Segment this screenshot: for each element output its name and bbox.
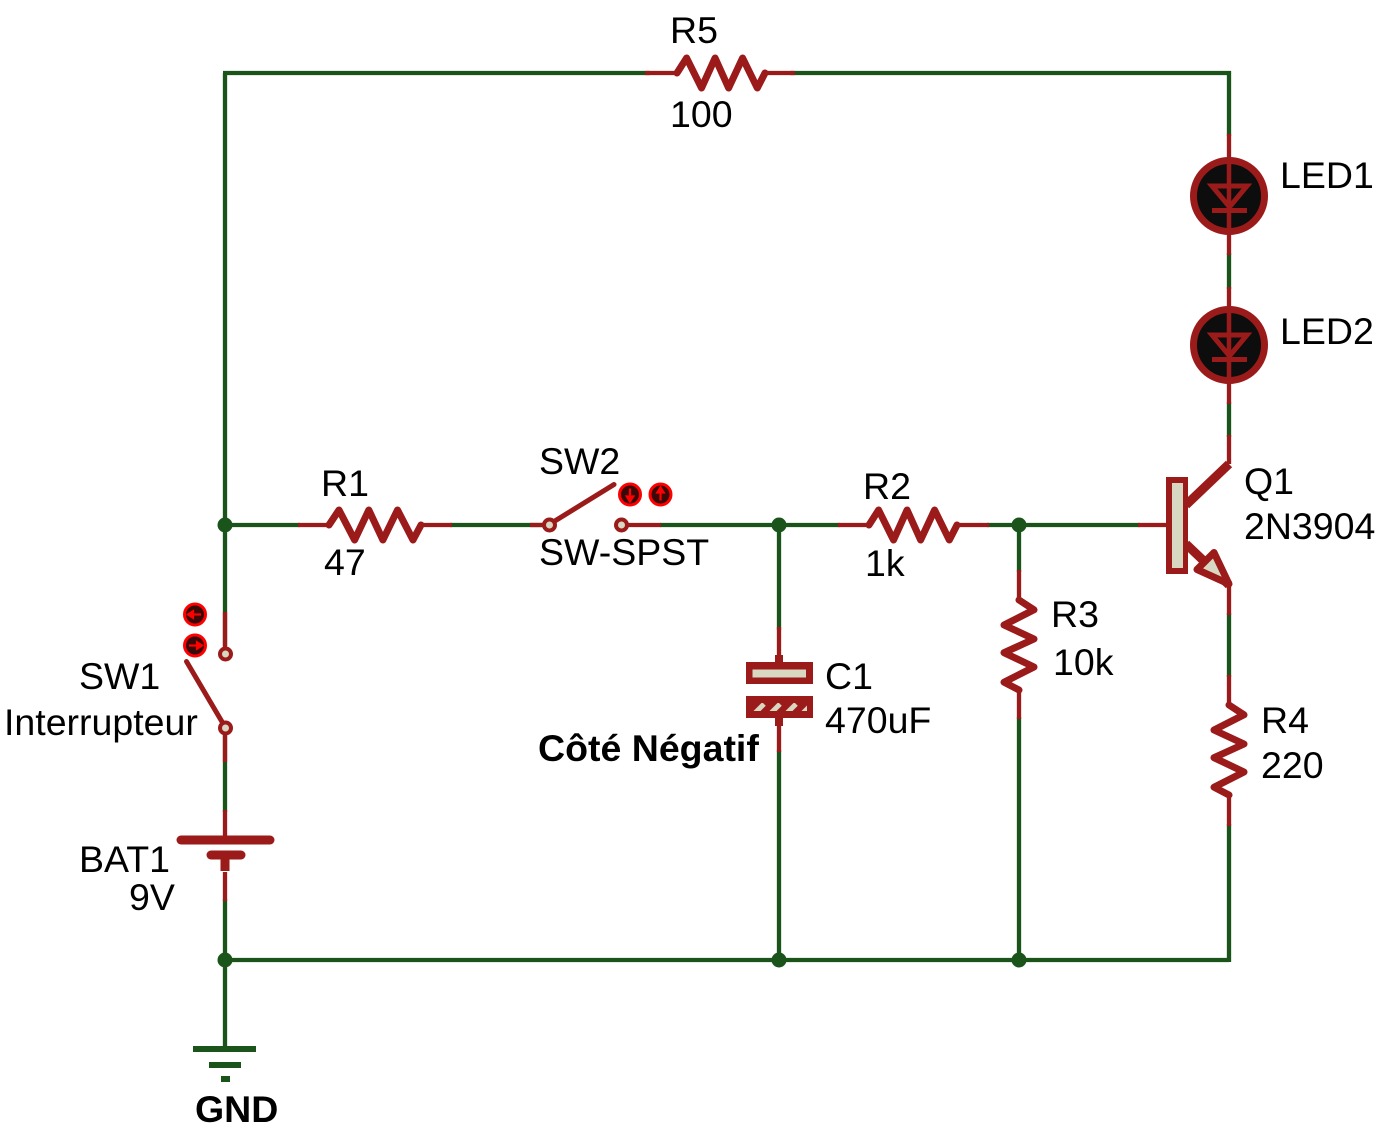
svg-text:470uF: 470uF: [825, 699, 931, 741]
svg-text:R2: R2: [863, 465, 911, 507]
svg-text:SW2: SW2: [539, 440, 620, 482]
svg-text:C1: C1: [825, 655, 873, 697]
svg-text:LED2: LED2: [1280, 310, 1374, 352]
svg-text:LED1: LED1: [1280, 154, 1374, 196]
svg-text:10k: 10k: [1053, 641, 1114, 683]
svg-text:1k: 1k: [865, 542, 905, 584]
svg-text:Q1: Q1: [1244, 460, 1294, 502]
svg-text:SW-SPST: SW-SPST: [539, 531, 709, 573]
svg-text:BAT1: BAT1: [79, 838, 170, 880]
svg-text:R4: R4: [1261, 699, 1309, 741]
svg-text:9V: 9V: [129, 876, 175, 918]
svg-text:Côté Négatif: Côté Négatif: [538, 727, 759, 769]
svg-text:Interrupteur: Interrupteur: [4, 701, 198, 743]
svg-text:R5: R5: [670, 9, 718, 51]
svg-text:R1: R1: [321, 462, 369, 504]
svg-text:47: 47: [324, 541, 366, 583]
svg-text:R3: R3: [1051, 593, 1099, 635]
svg-text:100: 100: [670, 93, 733, 135]
svg-text:SW1: SW1: [79, 655, 160, 697]
svg-text:2N3904: 2N3904: [1244, 505, 1375, 547]
svg-text:GND: GND: [195, 1088, 278, 1130]
svg-text:220: 220: [1261, 744, 1324, 786]
